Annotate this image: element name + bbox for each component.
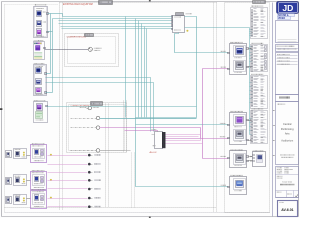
svg-text:AV-6.02: AV-6.02 xyxy=(150,151,158,154)
svg-text:Central: Central xyxy=(283,122,292,126)
svg-text:CLASSROOM 1201: CLASSROOM 1201 xyxy=(67,35,87,38)
svg-text:Performing: Performing xyxy=(281,127,294,131)
svg-text:Auditorium: Auditorium xyxy=(281,140,293,143)
svg-text:EXISTING RACK EQUIP RM: EXISTING RACK EQUIP RM xyxy=(63,3,93,6)
svg-text:AV-6.01: AV-6.01 xyxy=(281,208,293,212)
svg-text:Issue Date: Issue Date xyxy=(282,180,293,183)
svg-text:JD: JD xyxy=(282,3,293,13)
svg-text:Arts: Arts xyxy=(285,131,290,135)
svg-text:VIDEO: VIDEO xyxy=(278,18,285,20)
